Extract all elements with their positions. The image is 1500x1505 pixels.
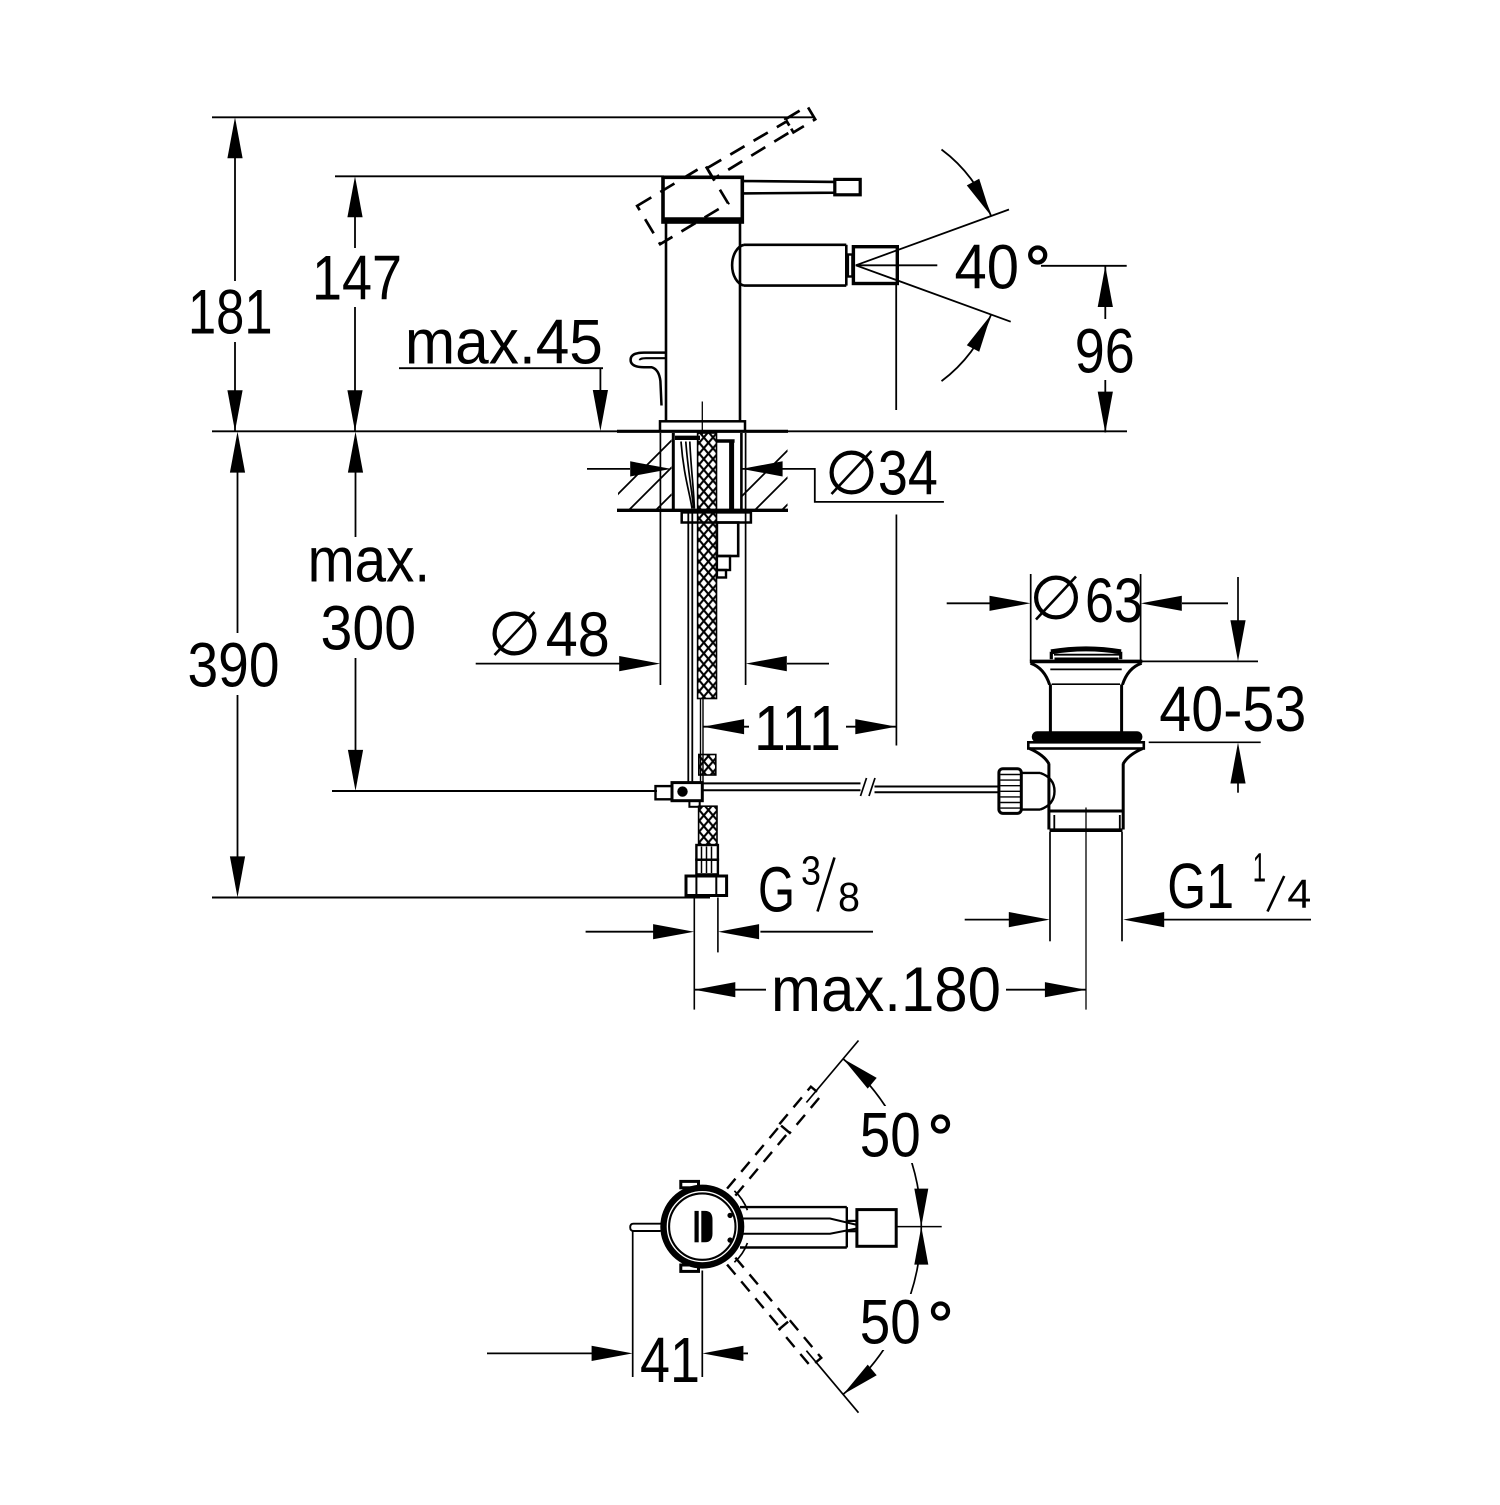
svg-text:147: 147: [312, 243, 402, 313]
dimension max.180: [694, 989, 1086, 991]
svg-text:8: 8: [838, 874, 860, 920]
svg-text:4: 4: [1287, 871, 1311, 917]
shank interior: funnel curves: [681, 442, 692, 509]
wire: 147-dim top reference line: [335, 175, 664, 177]
bottom view: faucet body circle: [664, 1188, 742, 1266]
svg-text:300: 300: [321, 593, 417, 663]
horizontal pop-up actuating rod, left segment: [702, 782, 860, 784]
bottom view: aerator (plan): [857, 1210, 896, 1247]
base flange (Diameter 48): [660, 421, 745, 431]
mounting hole left wall: [672, 433, 675, 510]
wire: 390-dim bottom reference line: [212, 897, 710, 899]
drain: diameter-63 extension lines: [1030, 574, 1032, 661]
svg-text:63: 63: [1085, 566, 1143, 636]
wire: deck surface line: [212, 430, 1127, 432]
svg-text:G: G: [758, 854, 795, 926]
dimension 181 (overall height): [234, 158, 236, 431]
dimension G 3/8 (supply hose thread): [586, 931, 654, 933]
bottom view: handle swung +50deg (dashed, up): [726, 1087, 821, 1197]
vertical pop-up pull rod: [687, 511, 689, 782]
bottom view: handle swung -50deg (dashed, down): [726, 1257, 821, 1367]
thread tails below nut: [693, 898, 695, 1010]
hose end fitting ribs: [696, 845, 718, 860]
pop-up rod knob hook on body: [631, 353, 667, 406]
drain O-ring (black): [1032, 731, 1143, 742]
braided supply hose through shank: [698, 433, 717, 699]
wire: max.300 bottom reference line (pop-up rod level): [332, 790, 657, 792]
pop-up rod joint left stub: [656, 786, 673, 799]
svg-text:50: 50: [860, 1288, 921, 1358]
bottom view: cartridge D-mark: [695, 1211, 699, 1242]
hose connection nut G3/8: [686, 876, 727, 896]
bottom view: spout neck (plan): [847, 1221, 857, 1231]
drain side knob (knurled): [999, 769, 1021, 814]
pop-up rod joint block: [672, 783, 702, 801]
mounting washer under deck: [682, 512, 751, 522]
svg-text:41: 41: [640, 1324, 700, 1396]
dimension G1 1/4 (drain thread): [965, 919, 1009, 921]
deck section block, hatched, with mounting hole: [617, 430, 788, 433]
handle lever end cap (solid position): [835, 179, 860, 194]
drain body bottom ring: [1049, 810, 1123, 813]
svg-text:3: 3: [801, 848, 821, 894]
svg-text:max.45: max.45: [405, 307, 603, 377]
svg-text:50: 50: [860, 1101, 921, 1171]
svg-text:40: 40: [955, 232, 1020, 302]
bottom view: mounting tabs: [681, 1181, 699, 1187]
dimension max.300 (below deck clearance): [355, 470, 357, 752]
handle in raised position (dashed): [637, 104, 829, 244]
handle lever arm (solid position): [742, 181, 835, 193]
small nut under joint: [689, 801, 699, 807]
drain upper flange lip and trumpet neck: [1030, 660, 1143, 664]
drain lower body: [1047, 764, 1050, 812]
bottom view: centerline right: [896, 1226, 942, 1228]
rod break symbol: [861, 778, 867, 796]
svg-text:40-53: 40-53: [1159, 673, 1306, 745]
svg-text:1: 1: [1253, 844, 1266, 890]
spout tube: [732, 245, 846, 286]
faucet centerline tick at deck: [701, 402, 703, 435]
drain push cap: [1051, 649, 1121, 652]
shank interior: top bar: [675, 436, 700, 440]
bottom view: spout (plan): [740, 1207, 847, 1247]
svg-text:G1: G1: [1167, 850, 1234, 922]
svg-text:max.180: max.180: [771, 955, 1001, 1025]
horizontal pop-up actuating rod, right segment to drain: [875, 786, 999, 788]
svg-text:48: 48: [546, 600, 610, 670]
bottom view: spout boss arcs: [734, 1191, 747, 1210]
dimension diameter-48 (flange) with extension lines: [659, 433, 661, 685]
drain upper body: [1049, 685, 1052, 732]
bottom view: 50deg rays: [806, 1041, 858, 1103]
dimension diameter-63: [947, 602, 990, 604]
hatching: deck left of hole: [590, 427, 874, 522]
dimension 147 (spout height): [354, 217, 356, 431]
dimension 96 (aerator height over deck): [1104, 266, 1106, 433]
extension line below aerator (96/111 reference): [895, 284, 897, 411]
drain tailpipe G1 1/4: [1049, 832, 1051, 941]
wire: 181-dim top reference line: [212, 116, 815, 118]
bottom view: 50deg dimension arcs with arrowheads: [843, 1059, 921, 1227]
svg-text:181: 181: [188, 278, 273, 348]
dimension 111 (reach): [703, 726, 896, 728]
svg-text:111: 111: [754, 692, 841, 764]
drain knob stem and nose: [1021, 772, 1040, 774]
svg-text:max.: max.: [308, 526, 431, 596]
hose core lines in braid gap: [700, 699, 702, 782]
pop-up rod guide bracket: [717, 523, 738, 557]
faucet body (side view): [665, 220, 668, 422]
drain lower flange: [1028, 742, 1144, 748]
40-degree dimension arcs with arrowheads: [942, 150, 991, 216]
svg-text:96: 96: [1075, 317, 1135, 387]
dimension 40-53 (mounting depth): [1237, 577, 1239, 622]
spout neck ring: [848, 255, 853, 277]
aerator / mousseur with spray cross: [853, 247, 897, 284]
40-degree label and leaders: [856, 264, 938, 266]
braided hose short segment above rod joint: [699, 755, 716, 776]
bottom view: 50deg labels: [851, 1106, 957, 1163]
bottom view: pop-up rod end (plan): [630, 1224, 660, 1231]
dimension 390: [237, 470, 239, 858]
bottom view: alignment dots: [727, 1213, 732, 1218]
mounting hole right wall: [740, 433, 743, 510]
braided hose below rod: [699, 806, 717, 845]
dimension diameter-34 (hole): [587, 468, 630, 470]
drain centerline: [1085, 808, 1087, 1010]
svg-text:390: 390: [188, 631, 280, 701]
hatching: deck right of hole: [716, 427, 1000, 522]
handle block (solid position): [663, 177, 742, 222]
shank interior: right retaining piece: [716, 439, 735, 442]
40-degree spray angle: rays: [856, 210, 1009, 266]
dimension 41 (bottom view): [632, 1231, 634, 1377]
svg-text:34: 34: [878, 438, 938, 508]
